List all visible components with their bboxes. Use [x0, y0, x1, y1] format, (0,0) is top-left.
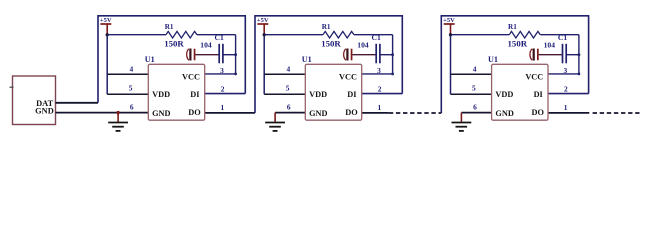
svg-text:6: 6 — [473, 103, 477, 112]
wire GND bus from connector to pin6 (unit 1) — [56, 112, 149, 114]
wire GND pin6 (unit 3) — [461, 112, 491, 114]
IC U1 LED driver chip (unit 2) — [305, 64, 361, 120]
svg-text:R1: R1 — [165, 23, 174, 31]
capacitor C2 104 electrolytic style (unit 3) — [530, 49, 532, 60]
wire DO pin1 (unit 1) — [205, 112, 255, 114]
wire DI pin2 of U1 (unit 2) — [362, 93, 403, 95]
svg-text:VCC: VCC — [339, 72, 357, 81]
junction +5V/R1 (unit 2) — [263, 33, 266, 36]
wire VCC pin3 (unit 3) — [548, 73, 579, 75]
junction +5V/R1 (unit 1) — [106, 33, 109, 36]
wire VCC pin3 (unit 1) — [205, 73, 236, 75]
connector J1 input (DAT/GND) — [13, 76, 56, 125]
svg-text:C1: C1 — [215, 33, 224, 42]
resistor R1 150R (unit 2) — [264, 34, 323, 36]
wire dashed cascade tail after DO3 — [593, 112, 640, 114]
svg-text:C1: C1 — [558, 33, 567, 42]
svg-text:U1: U1 — [488, 55, 498, 64]
svg-text:GND: GND — [35, 107, 54, 116]
resistor R1 150R (unit 3) — [451, 34, 510, 36]
svg-text:DI: DI — [190, 90, 199, 99]
svg-text:VCC: VCC — [182, 72, 200, 81]
ground symbol (unit 1) — [117, 113, 119, 122]
IC U1 LED driver chip (unit 1) — [148, 64, 204, 120]
svg-text:1: 1 — [377, 103, 381, 112]
svg-text:150R: 150R — [321, 39, 341, 49]
junction ground tap (unit 1) — [116, 111, 119, 114]
resistor R1 150R (unit 1) — [107, 34, 166, 36]
wire C1 to VCC branch (unit 1) — [223, 54, 236, 56]
node DIN1: data entry path (left edge / top / right edge of unit 1) — [98, 16, 245, 103]
svg-text:+5V: +5V — [443, 17, 455, 24]
svg-text:DO: DO — [188, 108, 201, 117]
capacitor C2 104 electrolytic style (unit 2) — [344, 49, 346, 60]
wire +5V rail down to VDD pin5 (unit 3) — [450, 35, 452, 94]
svg-text:GND: GND — [495, 109, 513, 118]
wire C1 to VCC branch (unit 2) — [380, 54, 393, 56]
svg-text:C1: C1 — [372, 33, 381, 42]
svg-text:3: 3 — [220, 66, 224, 75]
wire pin4 to +5V (unit 3) — [451, 73, 492, 75]
svg-text:104: 104 — [544, 40, 556, 49]
junction +5V/R1 (unit 3) — [449, 33, 452, 36]
wire DO pin1 (unit 3) — [548, 112, 589, 114]
svg-text:3: 3 — [377, 66, 381, 75]
wire +5V rail down to VDD pin5 (unit 1) — [106, 35, 108, 94]
wire VDD pin5 (unit 2) — [264, 93, 305, 95]
ground symbol (unit 2) — [274, 113, 276, 122]
svg-text:VDD: VDD — [309, 90, 327, 99]
wire R1 to C1 branch (unit 1) — [197, 34, 236, 36]
svg-text:GND: GND — [309, 109, 327, 118]
wire +5V rail down to VDD pin5 (unit 2) — [263, 35, 265, 94]
svg-text:+5V: +5V — [257, 17, 269, 24]
svg-text:+5V: +5V — [100, 17, 112, 24]
svg-text:DO: DO — [345, 108, 358, 117]
svg-text:5: 5 — [129, 84, 133, 93]
wire cap to C1 (unit 2) — [352, 54, 375, 56]
ground symbol (unit 3) — [460, 113, 462, 122]
svg-text:2: 2 — [564, 85, 568, 94]
wire R1 to C1 branch (unit 2) — [354, 34, 393, 36]
wire DAT from connector to unit 1 — [56, 102, 99, 104]
wire DI pin2 of U1 (unit 3) — [548, 93, 589, 95]
wire DI pin2 of U1 (unit 1) — [205, 93, 246, 95]
wire VDD pin5 (unit 1) — [107, 93, 148, 95]
wire cap to C1 (unit 1) — [195, 54, 218, 56]
node DIN2: data entry path (left edge / top / right edge of unit 2) — [255, 16, 402, 113]
capacitor C2 104 electrolytic style (unit 1) — [187, 49, 189, 60]
wire DO pin1 (unit 2) — [362, 112, 389, 114]
svg-text:DI: DI — [534, 90, 543, 99]
wire dashed cascade DO2 to DIN3 — [389, 112, 442, 114]
svg-text:VDD: VDD — [152, 90, 170, 99]
wire VDD pin5 (unit 3) — [451, 93, 492, 95]
svg-text:2: 2 — [221, 85, 225, 94]
IC U1 LED driver chip (unit 3) — [492, 64, 548, 120]
wire C1 to VCC branch (unit 3) — [566, 54, 579, 56]
svg-text:1: 1 — [220, 103, 224, 112]
svg-text:R1: R1 — [508, 23, 517, 31]
svg-text:4: 4 — [286, 64, 290, 73]
wire cap to C1 (unit 3) — [539, 54, 562, 56]
svg-text:VDD: VDD — [495, 90, 513, 99]
svg-text:U1: U1 — [145, 55, 155, 64]
svg-text:104: 104 — [357, 40, 369, 49]
svg-text:5: 5 — [472, 84, 476, 93]
svg-text:150R: 150R — [508, 39, 528, 49]
svg-text:5: 5 — [286, 84, 290, 93]
svg-text:6: 6 — [130, 103, 134, 112]
svg-text:R1: R1 — [322, 23, 331, 31]
wire VCC pin3 (unit 2) — [362, 73, 393, 75]
svg-text:U1: U1 — [302, 55, 312, 64]
svg-text:104: 104 — [200, 40, 212, 49]
svg-text:2: 2 — [378, 85, 382, 94]
svg-text:DO: DO — [532, 108, 545, 117]
wire pin4 to +5V (unit 2) — [264, 73, 305, 75]
svg-text:4: 4 — [473, 64, 477, 73]
svg-text:DI: DI — [347, 90, 356, 99]
svg-text:GND: GND — [152, 109, 170, 118]
svg-text:VCC: VCC — [525, 72, 543, 81]
wire pin4 to +5V (unit 1) — [107, 73, 148, 75]
wire GND pin6 (unit 2) — [275, 112, 305, 114]
svg-text:150R: 150R — [164, 39, 184, 49]
svg-text:3: 3 — [563, 66, 567, 75]
wire R1 to C1 branch (unit 3) — [540, 34, 579, 36]
svg-text:6: 6 — [287, 103, 291, 112]
node DIN3: data entry path (left edge / top / right edge of unit 3) — [441, 16, 588, 113]
svg-text:1: 1 — [564, 103, 568, 112]
svg-text:4: 4 — [129, 64, 133, 73]
